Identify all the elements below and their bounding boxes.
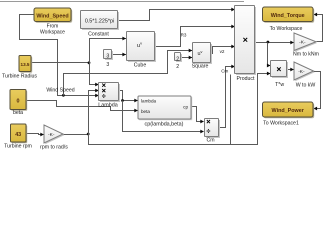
svg-text:rpm to rad/s: rpm to rad/s xyxy=(40,144,68,150)
top window border line xyxy=(0,1,244,3)
From Workspace block Wind_Speed xyxy=(35,9,72,23)
wire stub vertical xyxy=(230,75,232,145)
svg-text:Product: Product xyxy=(237,76,255,82)
gain Nm to kNm xyxy=(295,34,317,52)
svg-text:43: 43 xyxy=(15,132,21,138)
svg-text:T*w: T*w xyxy=(275,82,284,88)
wire radius up to cube xyxy=(90,39,127,63)
wire kWgain to WindPower xyxy=(314,72,321,109)
wire constant to product xyxy=(119,10,235,21)
product block T*w xyxy=(272,62,288,78)
wire square out v2 xyxy=(211,47,235,54)
svg-text:Cm: Cm xyxy=(221,69,228,74)
svg-text:cp: cp xyxy=(183,105,188,110)
wire omega down bottom xyxy=(89,74,271,145)
svg-text:Cm: Cm xyxy=(206,138,214,144)
math power block Square xyxy=(194,44,212,64)
svg-text:Turbine Radius: Turbine Radius xyxy=(2,74,37,80)
svg-text:3: 3 xyxy=(106,62,109,68)
wire wind speed main xyxy=(20,15,99,96)
wire radius down to lambda xyxy=(90,63,99,85)
svg-text:0: 0 xyxy=(17,98,20,104)
svg-text:To Workspace: To Workspace xyxy=(270,26,303,32)
svg-text:3: 3 xyxy=(106,53,109,59)
wire torque down to Tw xyxy=(268,43,271,66)
constant 0.5*1.225*pi xyxy=(82,12,119,30)
svg-text:lambda: lambda xyxy=(141,99,157,104)
constant beta 0 xyxy=(11,91,27,111)
product block Product xyxy=(236,7,256,75)
constant 3 xyxy=(105,51,113,60)
wire 3 to cube xyxy=(113,54,127,56)
subsystem cp(lambda,beta) xyxy=(139,97,192,120)
svg-text:R3: R3 xyxy=(181,33,187,38)
wire radius xyxy=(32,62,90,64)
svg-text:cp(lambda,beta): cp(lambda,beta) xyxy=(145,121,184,127)
svg-text:Workspace: Workspace xyxy=(40,30,65,36)
svg-text:0.5*1.225*pi: 0.5*1.225*pi xyxy=(85,19,114,25)
math power block Cube xyxy=(128,33,156,62)
constant Turbine rpm 43 xyxy=(12,125,28,143)
wire omega main xyxy=(64,134,89,136)
gain W to kW xyxy=(295,63,315,81)
svg-text:beta: beta xyxy=(13,110,23,116)
product block Lambda xyxy=(100,84,120,102)
svg-text:Cube: Cube xyxy=(134,63,147,69)
svg-text:Square: Square xyxy=(192,63,209,69)
svg-text:2: 2 xyxy=(176,64,179,70)
svg-text:Lambda: Lambda xyxy=(98,102,117,108)
svg-text:Wind_Torque: Wind_Torque xyxy=(271,13,305,19)
constant 2 xyxy=(176,54,182,62)
wire cp out to Cm xyxy=(192,107,204,122)
To Workspace1 block Wind_Power xyxy=(264,103,315,118)
svg-text:beta: beta xyxy=(141,109,150,114)
svg-text:Wind Speed: Wind Speed xyxy=(46,88,74,94)
wire Tw to kWgain xyxy=(288,69,294,71)
svg-text:13.5: 13.5 xyxy=(21,62,30,67)
wire Cm out xyxy=(219,67,235,128)
wire wind speed to square xyxy=(64,51,193,96)
svg-text:-K-: -K- xyxy=(299,40,306,46)
svg-text:-K-: -K- xyxy=(298,69,305,75)
svg-text:Nm to kNm: Nm to kNm xyxy=(293,52,319,58)
wire beta to cp xyxy=(27,101,138,111)
wire product out xyxy=(256,42,294,44)
svg-text:W to kW: W to kW xyxy=(296,82,316,88)
wire omega up to lambda xyxy=(89,91,99,135)
constant Turbine Radius 13.5 xyxy=(20,57,32,73)
svg-text:Wind_Speed: Wind_Speed xyxy=(36,14,68,20)
svg-text:Wind_Power: Wind_Power xyxy=(272,108,305,114)
product block Cm xyxy=(206,120,220,138)
wire lambda to Cm divide xyxy=(123,101,204,132)
svg-text:Constant: Constant xyxy=(88,32,109,38)
wire 43 to rpmgain xyxy=(27,134,44,135)
To Workspace block Wind_Torque xyxy=(264,8,315,23)
svg-text:Turbine rpm: Turbine rpm xyxy=(4,143,32,149)
wire lambda out xyxy=(120,91,138,101)
svg-text:-K-: -K- xyxy=(48,132,55,138)
svg-text:v2: v2 xyxy=(220,49,225,54)
wire NmGain to WindTorque xyxy=(314,15,323,42)
svg-text:To Workspace1: To Workspace1 xyxy=(263,120,299,126)
wire 2 to square xyxy=(182,57,193,59)
wire cube out R3 xyxy=(155,27,235,47)
svg-text:2: 2 xyxy=(176,56,179,62)
gain rpm to rad/s xyxy=(45,126,64,144)
